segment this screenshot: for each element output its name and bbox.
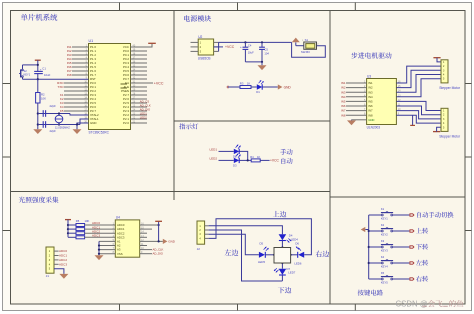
power VCC bar motor1 — [433, 57, 440, 59]
wire OUT7 to motor2 — [396, 111, 441, 119]
wire uln gnd — [352, 119, 367, 121]
key label 2 — [416, 228, 428, 234]
push button K2 — [369, 230, 382, 232]
wire P3.3 — [64, 94, 89, 96]
adc U4 pin names — [117, 223, 125, 256]
wire LED2 — [219, 159, 234, 161]
wire net top-led — [209, 226, 283, 234]
wire P1.7 — [72, 74, 89, 76]
svg-text:ADC3: ADC3 — [92, 234, 100, 238]
wire LED1 — [219, 150, 234, 152]
wire IN5 — [346, 100, 367, 102]
wire IN7 — [346, 110, 367, 112]
svg-text:IN5: IN5 — [368, 100, 373, 104]
power VCC bar reset — [35, 59, 41, 61]
power arrow up — [292, 38, 300, 43]
svg-text:IN6: IN6 — [368, 104, 373, 108]
svg-text:10K: 10K — [85, 219, 90, 223]
wire OUT8 to motor2 — [396, 115, 441, 123]
wire P3.0 — [64, 82, 89, 84]
wire P3.1 — [64, 86, 89, 88]
wire stub — [131, 98, 148, 100]
wire D1 to gnd — [262, 86, 278, 88]
svg-text:KEY1: KEY1 — [381, 217, 388, 221]
uln2003 U3 body — [367, 79, 397, 125]
label bottom side — [278, 287, 291, 293]
svg-text:SW-B3: SW-B3 — [301, 50, 310, 54]
wire OUT5 to motor2 — [396, 101, 441, 110]
wire adc right pins — [140, 232, 147, 234]
led D2 — [234, 149, 239, 154]
svg-text:ADC0: ADC0 — [59, 249, 67, 253]
crystal Y1 — [55, 115, 63, 123]
svg-text:CSDN @: CSDN @ — [396, 300, 428, 309]
push button K3 — [369, 246, 382, 248]
push button K1 — [369, 214, 382, 216]
port K3 — [410, 246, 414, 248]
solar sensor square — [274, 248, 291, 264]
svg-text:USB5CB: USB5CB — [198, 56, 211, 60]
wire P0.4 stub — [131, 66, 148, 68]
svg-text:U2: U2 — [198, 35, 202, 39]
svg-text:IN5: IN5 — [341, 100, 346, 104]
svg-text:+VCC: +VCC — [225, 45, 235, 49]
wire U2 left pin 1 — [191, 41, 199, 43]
power VCC bar motor2 — [433, 131, 440, 133]
svg-text:IN7: IN7 — [368, 109, 373, 113]
wire D3 to R4 — [239, 159, 251, 161]
wire U2 left pin 2 — [191, 46, 199, 48]
led D1 — [257, 84, 262, 89]
svg-text:J2: J2 — [197, 247, 201, 251]
svg-text:ADC1: ADC1 — [59, 254, 67, 258]
svg-text:K2: K2 — [381, 223, 385, 227]
led D6 — [298, 252, 304, 258]
label right side — [316, 251, 330, 257]
wire P3.6 — [64, 106, 89, 108]
svg-text:STC89C52RC: STC89C52RC — [89, 130, 110, 134]
wire J2 pin — [205, 233, 209, 235]
label manual — [280, 149, 292, 155]
wire OUT6 to motor2 — [396, 106, 441, 115]
svg-text:AD_DIO: AD_DIO — [153, 252, 164, 256]
wire P1.3 — [72, 58, 89, 60]
led connector J2 body — [197, 221, 205, 244]
svg-text:GND: GND — [368, 118, 374, 122]
wire XTAL1 net — [38, 124, 80, 126]
wire P1.5 — [72, 66, 89, 68]
ground arrow keys — [365, 229, 368, 231]
wire adc input 0 — [85, 224, 116, 226]
key label 5 — [416, 276, 428, 282]
ground arrow caps — [261, 62, 263, 65]
adc chip U4 body — [115, 220, 139, 257]
led D5 — [259, 252, 265, 258]
capacitor C3 — [42, 121, 44, 128]
svg-text:+VCC: +VCC — [270, 159, 280, 163]
wire net left-led — [209, 234, 259, 255]
svg-text:10K: 10K — [41, 97, 46, 101]
wire U2 right pin — [214, 46, 219, 48]
power VCC bar adc — [65, 219, 71, 221]
svg-text:ADC2: ADC2 — [59, 258, 67, 262]
wire IN3 — [346, 91, 367, 93]
uln2003 pin numbers — [364, 81, 401, 116]
wire U2 right pin — [214, 50, 219, 52]
wire P3.7 — [64, 110, 89, 112]
svg-text:ULN2003: ULN2003 — [367, 126, 381, 130]
svg-text:ADC3: ADC3 — [59, 262, 67, 266]
mcu U1 pin names — [90, 45, 129, 125]
wire J2 pin — [205, 237, 209, 239]
wire J1 pin 2 — [54, 255, 59, 257]
wire stub — [131, 106, 148, 108]
wire XTAL2 net — [38, 113, 70, 115]
power VCC bar — [148, 42, 156, 44]
section title: power module — [184, 15, 211, 21]
wire adc input 1 — [85, 228, 116, 230]
svg-text:22pF: 22pF — [50, 129, 57, 133]
wire adc gnd pin — [140, 240, 163, 242]
capacitor C4 — [244, 41, 246, 43]
svg-text:K5: K5 — [60, 109, 64, 113]
svg-text:LED2: LED2 — [140, 115, 147, 119]
wire OUT1 to motor1 — [396, 66, 441, 83]
ground port arrow — [278, 84, 283, 89]
wire P0.1 stub — [131, 54, 148, 56]
svg-text:KEY5: KEY5 — [381, 281, 388, 285]
wire reset top node — [23, 64, 38, 66]
wire P0.5 stub — [131, 70, 148, 72]
motor connector J4 body — [441, 108, 448, 131]
resistor R3 — [227, 86, 230, 88]
ground arrow J1 — [59, 274, 68, 279]
wire VCC pin 40 — [131, 44, 153, 47]
net label AD_CLK — [140, 249, 152, 251]
svg-text:GND: GND — [168, 240, 176, 244]
svg-text:1K: 1K — [257, 155, 260, 159]
port K4 — [410, 262, 414, 264]
label top side — [273, 211, 286, 217]
wire D2 to junction — [239, 151, 248, 160]
svg-text:R3: R3 — [240, 81, 244, 85]
svg-text:C5: C5 — [264, 48, 268, 52]
ground port arrow adc — [163, 239, 168, 244]
section title: key circuit — [358, 290, 383, 296]
power VCC bar adc right — [155, 220, 162, 222]
svg-text:+VCC: +VCC — [154, 81, 164, 85]
port K2 — [410, 230, 414, 232]
wire IN1 — [346, 82, 367, 84]
wire stub — [131, 110, 148, 112]
wire IN2 — [346, 87, 367, 89]
key label 4 — [416, 260, 428, 266]
wire P0.0 stub — [131, 50, 148, 52]
svg-text:KEY4: KEY4 — [381, 265, 388, 269]
resistor R8 — [68, 236, 76, 238]
resistor R6 — [68, 228, 76, 230]
section title: stepper motor drive — [351, 52, 391, 58]
wire adc input 2 — [85, 232, 116, 234]
section title: light intensity sensing — [19, 197, 59, 203]
svg-text:IN1: IN1 — [341, 81, 346, 85]
wire P1.6 — [72, 70, 89, 72]
wire U2 right pin — [214, 41, 219, 43]
push button K5 — [369, 278, 382, 280]
section title: MCU system — [21, 14, 58, 21]
wire P1.0 — [72, 46, 89, 48]
svg-text:IN4: IN4 — [368, 95, 373, 99]
svg-text:Stepper Motor: Stepper Motor — [439, 135, 461, 139]
svg-text:11.0592MHZ: 11.0592MHZ — [55, 126, 70, 130]
wire P1.1 — [72, 50, 89, 52]
svg-text:IN3: IN3 — [341, 90, 346, 94]
ground arrow mcu — [73, 129, 82, 134]
wire P1.4 — [72, 62, 89, 64]
led D4 — [279, 234, 287, 240]
push button K4 — [369, 262, 382, 264]
svg-text:KEY2: KEY2 — [381, 233, 388, 237]
svg-text:GND: GND — [90, 121, 96, 125]
power connector U2 body — [198, 39, 213, 55]
wire GND pin — [77, 123, 89, 129]
svg-text:IN6: IN6 — [341, 104, 346, 108]
ground arrow reset — [33, 129, 42, 134]
wire P1.2 — [72, 54, 89, 56]
mcu U1 pin numbers — [84, 45, 136, 124]
svg-text:LED5: LED5 — [258, 260, 265, 264]
wire adc lower pins — [99, 240, 115, 242]
svg-text:D6: D6 — [295, 241, 299, 245]
wire +5V rail — [219, 41, 292, 43]
svg-text:IN8: IN8 — [341, 113, 346, 117]
uln2003 pin names — [368, 81, 373, 117]
svg-text:104: 104 — [264, 51, 269, 55]
svg-text:K3: K3 — [381, 239, 385, 243]
svg-text:U1: U1 — [89, 39, 94, 43]
wire stub — [131, 122, 148, 124]
svg-text:Stepper Motor: Stepper Motor — [439, 86, 461, 90]
resistor R5 — [68, 224, 76, 226]
wire stub — [131, 86, 148, 88]
photo connector J1 body — [46, 247, 54, 273]
wire stub — [131, 118, 148, 120]
svg-text:10uF: 10uF — [248, 50, 254, 54]
port K5 — [410, 278, 414, 280]
wire R3 to D1 — [251, 86, 257, 88]
svg-text:IN8: IN8 — [368, 113, 373, 117]
wire P3.5 — [64, 102, 89, 104]
key label 1 — [417, 212, 453, 218]
svg-text:1K: 1K — [247, 81, 251, 85]
wire net right-led — [209, 219, 312, 255]
svg-text:IN3: IN3 — [368, 90, 373, 94]
svg-text:IN1: IN1 — [368, 81, 373, 85]
resistor R2 — [37, 79, 39, 92]
wire J1 pin 1 — [54, 250, 59, 252]
svg-text:IN2: IN2 — [341, 86, 346, 90]
wire reset rail — [37, 103, 39, 129]
svg-text:P2.0: P2.0 — [123, 121, 129, 125]
svg-text:U4: U4 — [116, 216, 120, 220]
svg-text:R5: R5 — [76, 219, 80, 223]
svg-text:IN7: IN7 — [341, 109, 346, 113]
wire cap gnd tie — [245, 61, 262, 63]
wire RST — [23, 78, 89, 80]
svg-text:D3: D3 — [233, 163, 237, 167]
wire P3.4 — [64, 98, 89, 100]
wire P0.3 stub — [131, 62, 148, 64]
svg-text:LED2: LED2 — [210, 157, 218, 161]
svg-text:KEY3: KEY3 — [381, 249, 388, 253]
section title: indicator lights — [179, 123, 198, 129]
svg-text:+: + — [240, 45, 242, 49]
svg-text:22pF: 22pF — [50, 104, 57, 108]
wire P0.2 stub — [131, 58, 148, 60]
svg-text:D5: D5 — [260, 242, 264, 246]
wire OUT4 to motor1 — [396, 79, 441, 97]
resistor R4 — [251, 159, 260, 162]
svg-text:C4: C4 — [248, 43, 252, 47]
svg-text:10uF: 10uF — [44, 73, 51, 77]
svg-text:K4: K4 — [381, 255, 385, 259]
wire J1 pin 3 — [54, 259, 59, 261]
wire OUT2 to motor1 — [396, 70, 441, 87]
wire EA pin — [131, 82, 154, 84]
wire J2 pin — [205, 225, 209, 227]
wire P0.6 stub — [131, 74, 148, 76]
wire U2 output tie — [218, 42, 220, 51]
svg-text:KEY1: KEY1 — [24, 73, 31, 77]
motor connector J3 body — [441, 60, 448, 83]
wire U2 left pin 3 — [191, 50, 199, 52]
key label 3 — [416, 244, 428, 250]
svg-text:D1: D1 — [256, 90, 260, 94]
wire stub — [131, 114, 148, 116]
capacitor C2 — [42, 110, 44, 117]
svg-text:LED7: LED7 — [288, 270, 295, 274]
svg-text:K1: K1 — [381, 207, 385, 211]
net label AD_DIO — [140, 253, 152, 255]
svg-text:S1: S1 — [305, 38, 309, 42]
ground arrow adc left — [95, 255, 104, 260]
wire IN6 — [346, 105, 367, 107]
resistor R7 — [68, 232, 76, 234]
capacitor C5 — [261, 41, 263, 43]
svg-text:IN4: IN4 — [341, 95, 346, 99]
switch S1 — [304, 42, 317, 49]
svg-text:GND: GND — [284, 85, 292, 89]
led D3 — [234, 158, 239, 163]
ground arrow uln — [351, 119, 353, 122]
mcu U1 body — [89, 44, 131, 130]
svg-text:U3: U3 — [367, 74, 371, 78]
wire P0.7 stub — [131, 78, 148, 80]
capacitor C1 — [34, 70, 43, 72]
net label +VCC — [214, 46, 223, 48]
wire P3.2 — [64, 90, 89, 92]
wire adc vcc rail — [67, 225, 69, 237]
wire stub — [131, 94, 148, 96]
wire switch loop — [292, 42, 326, 57]
adc U4 pin numbers — [113, 223, 145, 255]
svg-text:K5: K5 — [381, 271, 385, 275]
wire R4 to VCC — [260, 159, 269, 161]
svg-text:LED1: LED1 — [210, 148, 218, 152]
svg-text:C1: C1 — [42, 66, 46, 70]
wire adc input 3 — [85, 236, 116, 238]
label left side — [225, 249, 239, 255]
svg-text:TXD: TXD — [58, 85, 65, 89]
svg-text:VSS: VSS — [117, 252, 123, 256]
wire IN8 — [346, 114, 367, 116]
wire J1 pin 4 — [54, 263, 59, 265]
ground bar out8 — [412, 115, 414, 125]
led D7 — [281, 263, 283, 269]
svg-text:LED6: LED6 — [294, 262, 301, 266]
svg-text:IN8: IN8 — [67, 73, 72, 77]
svg-text:R4: R4 — [250, 155, 254, 159]
wire IN4 — [346, 96, 367, 98]
label auto — [281, 158, 292, 164]
svg-text:IN2: IN2 — [368, 86, 373, 90]
wire J1 gnd pin — [54, 269, 64, 274]
wire stub — [131, 90, 148, 92]
wire stub — [131, 102, 148, 104]
port K1 — [410, 214, 414, 216]
svg-text:D2: D2 — [233, 154, 237, 158]
wire adc vcc pin — [140, 224, 159, 226]
wire key rail — [368, 215, 370, 279]
svg-text:J1: J1 — [46, 274, 50, 278]
wire OUT3 to motor1 — [396, 75, 441, 93]
push button KEY1 — [22, 65, 24, 69]
wire J2 pin — [205, 229, 209, 231]
wire net bottom-led — [209, 230, 283, 281]
